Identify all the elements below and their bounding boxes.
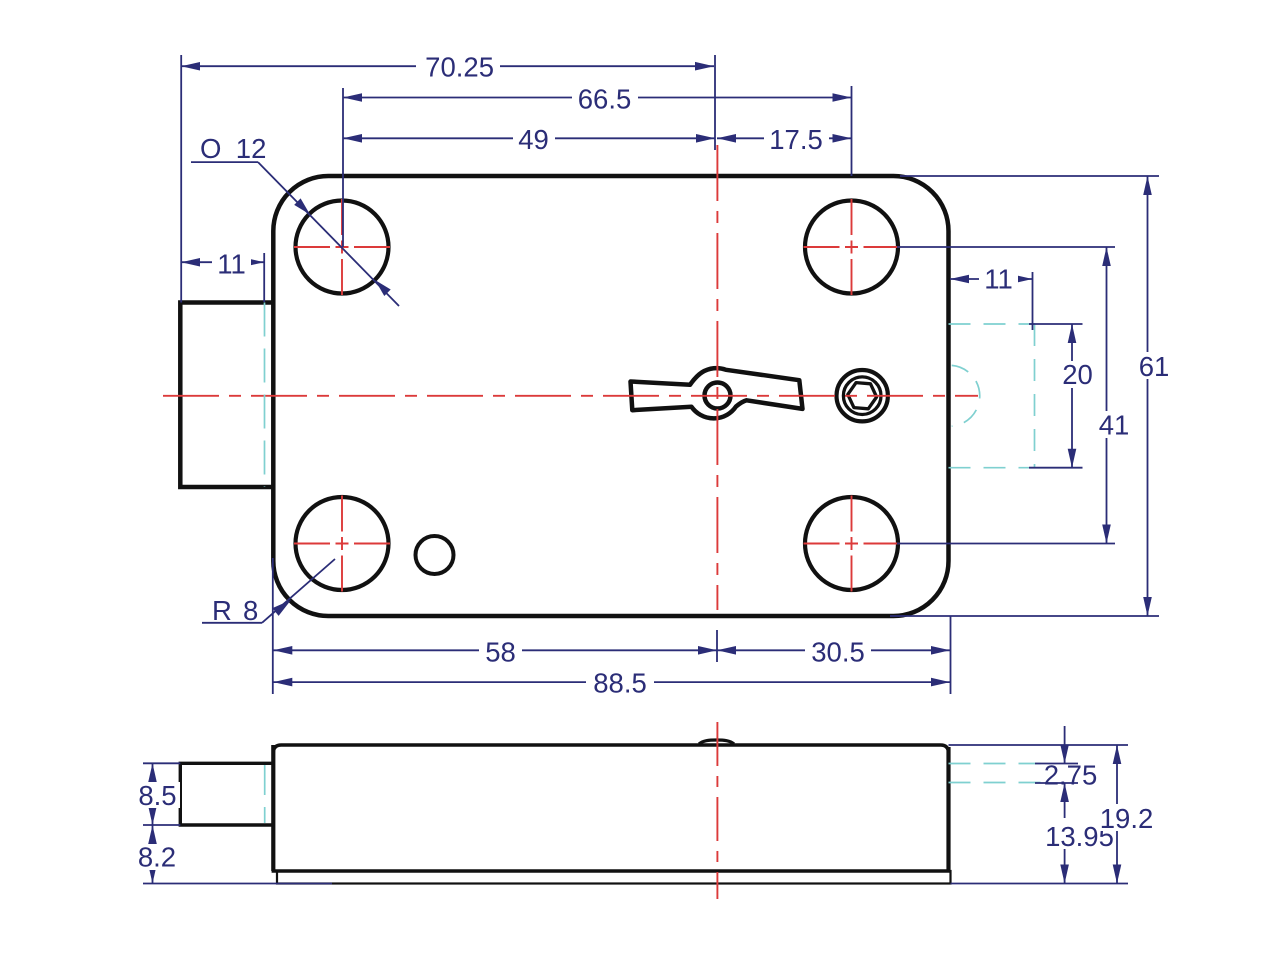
svg-text:8.5: 8.5 [138,780,176,811]
svg-text:11: 11 [984,264,1013,295]
cyan hidden bolt hole arc [952,365,980,426]
hole bottom-left [296,497,389,590]
dimension 8.2 [143,825,332,884]
cyan hidden line in latch [264,303,266,488]
svg-text:2.75: 2.75 [1044,760,1098,791]
body plate outline (top view) [273,176,948,616]
side spindle bump [699,740,734,744]
svg-text:88.5: 88.5 [593,668,647,699]
svg-text:19.2: 19.2 [1100,803,1154,834]
dimension 8.5 [143,763,180,825]
small hole [416,536,454,574]
screw nut outer [837,370,888,421]
dimension 70.25 [181,55,715,303]
dimension 49 [343,137,715,139]
svg-text:17.5: 17.5 [769,124,823,155]
dimension 66.5 [343,86,852,247]
svg-text:12: 12 [236,133,267,164]
red horizontal center line [163,395,978,397]
svg-text:20: 20 [1062,359,1093,390]
svg-text:O: O [200,133,221,164]
cyan hidden lines side view [265,764,1048,824]
svg-text:49: 49 [518,124,549,155]
side body left edge [271,745,275,871]
spindle hole [705,383,731,409]
dimension 13.95 [1064,848,1066,884]
svg-text:70.25: 70.25 [425,52,494,83]
dimension 11 left [181,253,264,302]
label O 12 with leader [191,162,399,306]
red vertical center line (side view) [716,722,718,899]
red crosshair hole top-right [804,199,900,295]
svg-text:61: 61 [1139,351,1170,382]
screw nut hex socket [848,383,877,409]
latch bolt (top view, left) [180,303,273,488]
side body [273,745,948,871]
cyan hidden outline right [949,324,1036,468]
screw nut inner circle [843,377,881,415]
red crosshair hole bottom-right [804,496,900,592]
svg-text:8: 8 [243,595,258,626]
red crosshair hole bottom-left [294,496,390,592]
svg-text:30.5: 30.5 [811,637,865,668]
svg-text:41: 41 [1099,410,1130,441]
dimension 2.75 [1035,726,1078,818]
svg-text:11: 11 [217,249,246,280]
dimension 11 right [950,272,1033,330]
hole bottom-right [805,497,898,590]
red vertical center line (top view) [716,145,718,610]
svg-text:8.2: 8.2 [138,842,176,873]
side latch [180,763,273,825]
dimension 20 [1029,324,1083,468]
side body right edge [946,747,950,871]
red crosshair hole top-left [294,199,390,295]
dimension 17.5 [717,137,852,139]
hole top-left [296,201,389,294]
dimension 41 [897,247,1115,544]
dimension 30.5 [717,649,950,651]
svg-text:R: R [212,595,232,626]
dimension 19.2 [949,745,1129,884]
label R 8 with leader [202,559,335,623]
dimension 61 [890,176,1159,616]
svg-text:66.5: 66.5 [578,84,632,115]
spindle wing handle [631,368,803,418]
svg-text:58: 58 [485,637,516,668]
dimension 58 [273,558,717,694]
dimension 88.5 [273,616,950,694]
hole top-right [805,201,898,294]
side bottom plate [277,871,951,884]
